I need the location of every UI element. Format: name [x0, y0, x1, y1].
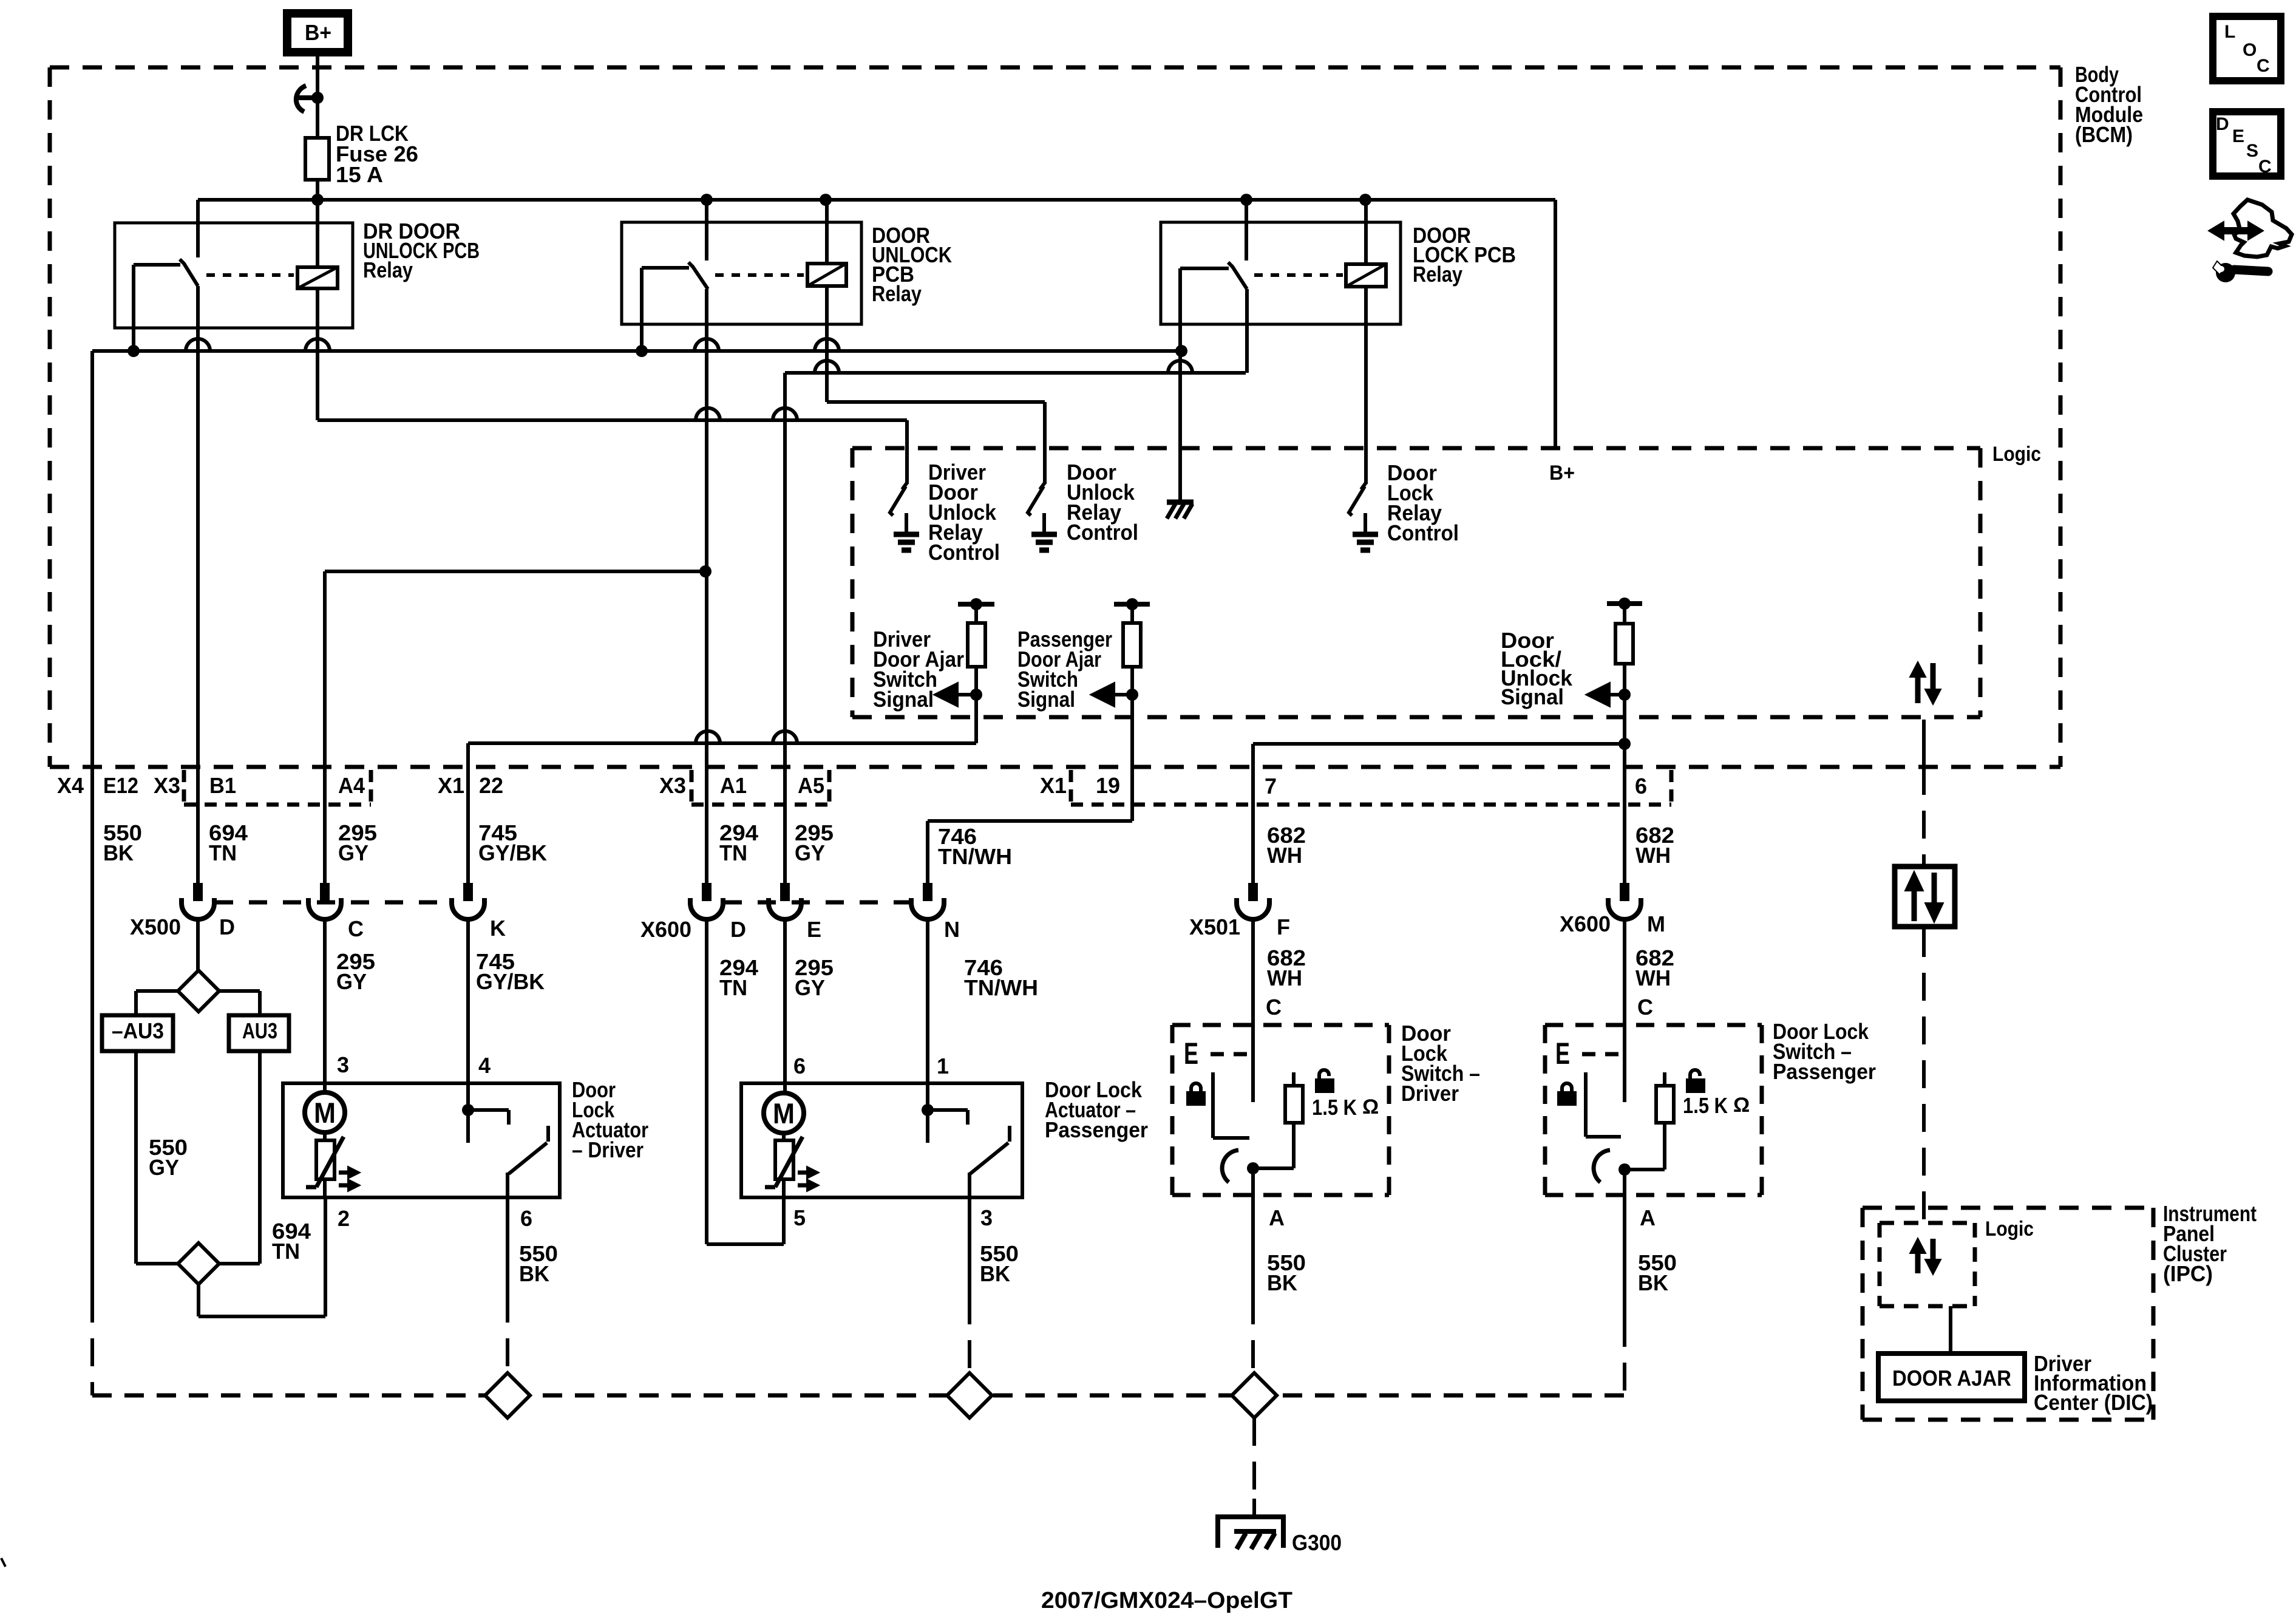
svg-text:Logic: Logic — [1992, 443, 2041, 466]
label X1 a — [438, 773, 464, 798]
svg-text:Signal: Signal — [1501, 684, 1564, 709]
relay K2 coil — [807, 264, 846, 286]
chassis ground relay K3 common — [1167, 502, 1194, 519]
svg-text:TN/WH: TN/WH — [938, 844, 1012, 869]
label 682 WH below F — [1267, 945, 1306, 990]
label X501 F — [1277, 914, 1290, 939]
label pin5 pass — [793, 1205, 806, 1230]
svg-text:1: 1 — [937, 1054, 949, 1078]
wire fuse to bus — [316, 180, 319, 269]
motor M passenger — [764, 1093, 804, 1133]
footer 2007/GMX024-OpelGT — [1041, 1588, 1292, 1613]
arrow door lock unlock signal — [1586, 683, 1631, 707]
svg-text:X1: X1 — [438, 773, 464, 798]
wire K1 coil control — [318, 288, 907, 484]
motor M driver — [305, 1092, 345, 1132]
door lock switch passenger lock contact — [1586, 1072, 1621, 1137]
svg-text:O: O — [2243, 40, 2257, 60]
svg-text:6: 6 — [1635, 774, 1647, 798]
resistor driver switch 1.5k — [1258, 1072, 1303, 1168]
relay K1 coil top wire — [316, 200, 319, 267]
svg-text:Control: Control — [928, 540, 1000, 565]
relay K2 common wire — [642, 268, 689, 351]
svg-text:WH: WH — [1635, 965, 1671, 990]
relay K3 switch blade — [1228, 262, 1247, 289]
label X3 a — [154, 773, 180, 798]
power symbol B+ — [287, 13, 348, 52]
door-wrench icon wrench — [2213, 261, 2268, 282]
svg-text:Passenger: Passenger — [1773, 1059, 1876, 1084]
label X500 K — [490, 916, 506, 941]
svg-text:F: F — [1277, 914, 1290, 939]
svg-text:E: E — [2232, 126, 2244, 146]
splice diamond driver actuator — [485, 1373, 530, 1418]
relay K3 common wire — [1180, 268, 1229, 502]
relay K1 DR DOOR UNLOCK PCB box — [115, 223, 353, 328]
label B1 — [209, 773, 236, 798]
svg-text:TN: TN — [272, 1239, 300, 1264]
svg-text:X4: X4 — [57, 773, 84, 798]
svg-text:Ω: Ω — [1362, 1095, 1379, 1119]
option box -AU3 — [102, 1015, 173, 1051]
label pin1 pass — [937, 1054, 949, 1078]
svg-text:X3: X3 — [154, 773, 180, 798]
svg-text:GY: GY — [795, 840, 825, 865]
label 550 GY — [149, 1135, 188, 1180]
dashes E passenger — [1582, 1052, 1621, 1057]
padlock closed driver — [1187, 1083, 1205, 1105]
junction dot clip — [311, 92, 324, 104]
instrument panel cluster dashed box — [1863, 1208, 2153, 1420]
svg-text:E: E — [807, 917, 821, 942]
door lock switch driver blade — [1222, 1150, 1238, 1182]
svg-text:3: 3 — [980, 1205, 993, 1230]
junction dots top bus — [311, 194, 1371, 206]
label 682 WH 6 — [1635, 823, 1674, 868]
label 694 TN B1 — [209, 820, 248, 865]
svg-text:X3: X3 — [659, 773, 686, 798]
door-wrench icon arrow — [2209, 222, 2263, 240]
splice diamond top — [178, 970, 219, 1012]
wire splice to AU3 — [219, 991, 260, 1015]
hops on K1 coil control wire — [696, 408, 797, 420]
label X4 — [57, 773, 84, 798]
door lock relay control switch — [1349, 483, 1378, 550]
wire B+ to fuse — [316, 56, 319, 138]
wire splice to pin2 — [199, 1197, 325, 1316]
relay K2 DOOR UNLOCK PCB box — [622, 222, 861, 324]
relay K3 DOOR LOCK PCB box — [1161, 222, 1401, 324]
label 550 BK driver actuator — [519, 1241, 558, 1286]
svg-text:7: 7 — [1265, 774, 1277, 798]
relay K3 switch bottom wire — [1245, 289, 1249, 373]
svg-text:C: C — [2258, 157, 2272, 177]
wire passenger switch to A — [1623, 1170, 1626, 1395]
svg-text:– Driver: – Driver — [572, 1137, 644, 1162]
svg-text:A5: A5 — [798, 773, 824, 798]
svg-text:3: 3 — [337, 1052, 349, 1077]
wire 550 BK E12 — [90, 351, 94, 1395]
padlock open passenger — [1686, 1070, 1705, 1092]
junction dot unlock bus — [699, 565, 712, 577]
junction dot driver switch — [1247, 1162, 1259, 1174]
label pin6 pass — [793, 1054, 806, 1078]
svg-text:L: L — [2224, 22, 2235, 42]
svg-text:AU3: AU3 — [242, 1018, 277, 1043]
svg-text:TN: TN — [719, 840, 747, 865]
svg-text:E: E — [1555, 1037, 1570, 1071]
label fuse — [336, 121, 418, 187]
svg-text:15 A: 15 A — [336, 162, 383, 187]
svg-text:TN/WH: TN/WH — [964, 975, 1038, 1000]
label pin3 pass — [980, 1205, 993, 1230]
label X500 — [130, 914, 181, 939]
svg-text:2: 2 — [338, 1206, 350, 1231]
wire BCM logic to IPC dashed — [1922, 720, 1926, 1222]
svg-text:WH: WH — [1267, 843, 1302, 868]
label X600 E — [807, 917, 821, 942]
resistor door lock unlock signal — [1607, 598, 1642, 744]
label 745 GYBK below K — [476, 949, 545, 994]
svg-text:Control: Control — [1387, 520, 1459, 545]
junction dots ground bus — [127, 345, 1187, 357]
connector X500 K — [452, 883, 484, 919]
wire K to actuator switch — [462, 917, 474, 1143]
door lock actuator passenger box — [741, 1083, 1022, 1197]
wire 550 BK passenger actuator — [968, 1197, 971, 1374]
svg-text:X600: X600 — [1560, 911, 1611, 936]
label Driver Door Ajar Switch Signal — [873, 627, 964, 712]
label 294 TN A1 — [719, 820, 758, 865]
svg-text:Relay: Relay — [1413, 262, 1462, 287]
svg-text:5: 5 — [793, 1205, 806, 1230]
door lock switch passenger blade — [1594, 1150, 1610, 1182]
ptc resistor passenger — [765, 1132, 803, 1187]
svg-text:D: D — [219, 914, 235, 939]
svg-text:D: D — [2216, 114, 2229, 134]
clip symbol at fuse — [296, 86, 315, 112]
label 22 — [479, 773, 503, 798]
relay K2 switch top terminal — [705, 200, 708, 260]
label 295 GY below E — [795, 955, 834, 1000]
svg-text:BK: BK — [1638, 1270, 1668, 1295]
logic dashed box BCM — [852, 448, 1980, 717]
relay K3 coil — [1346, 264, 1386, 287]
door-wrench icon outline — [2233, 200, 2292, 257]
connector X600 N — [911, 883, 944, 919]
resistor passenger door ajar — [1114, 598, 1150, 821]
wire K3 coil control — [1364, 287, 1368, 484]
svg-text:WH: WH — [1635, 843, 1671, 868]
wire to G300 — [1252, 1418, 1256, 1516]
arrow driver door ajar signal — [934, 683, 982, 707]
splice diamond bottom — [178, 1243, 219, 1284]
svg-text:GY: GY — [338, 840, 369, 865]
label 550 BK E12 — [103, 820, 142, 865]
label Logic IPC — [1985, 1217, 2034, 1241]
door unlock relay control switch — [1028, 483, 1057, 550]
label Driver Door Unlock Relay Control — [928, 460, 1000, 565]
wire N to actuator switch — [922, 917, 934, 1143]
lock-unlock arrows box — [1895, 867, 1955, 927]
fuse F26 DR LCK 15A — [305, 138, 329, 180]
label 1.5 K ohm driver — [1312, 1095, 1379, 1120]
relay K3 switch top terminal — [1245, 200, 1248, 260]
svg-text:X1: X1 — [1040, 773, 1067, 798]
driver door unlock relay control switch — [890, 483, 919, 550]
ipc logic dashed box — [1880, 1223, 1975, 1306]
label A passenger switch — [1640, 1205, 1656, 1230]
label relay K3 — [1413, 223, 1516, 287]
svg-text:4: 4 — [478, 1053, 491, 1078]
relay K1 actuation dashed — [206, 273, 294, 277]
svg-text:BK: BK — [1267, 1270, 1297, 1295]
wire ptc to pin2 — [323, 1179, 327, 1197]
svg-text:–AU3: –AU3 — [112, 1018, 164, 1043]
svg-text:S: S — [2246, 141, 2258, 161]
svg-text:GY/BK: GY/BK — [478, 840, 547, 865]
svg-text:BK: BK — [980, 1261, 1010, 1286]
svg-text:D: D — [730, 917, 746, 942]
arrow passenger door ajar signal — [1090, 683, 1138, 707]
label E driver — [1184, 1037, 1198, 1071]
label X500 C — [348, 916, 364, 941]
label G300 — [1292, 1530, 1342, 1555]
svg-text:A4: A4 — [338, 773, 365, 798]
label relay K1 — [363, 219, 480, 282]
wire 745 GYBK 22 — [466, 743, 470, 883]
svg-text:A: A — [1640, 1205, 1656, 1230]
svg-text:C: C — [1266, 995, 1282, 1020]
label 550 BK passenger switch — [1638, 1250, 1677, 1295]
svg-text:G300: G300 — [1292, 1530, 1342, 1555]
svg-text:M: M — [1647, 911, 1665, 936]
label 19 — [1096, 773, 1120, 798]
label Driver Information Center DIC — [2034, 1351, 2153, 1415]
wire -AU3 down — [136, 1051, 178, 1264]
relay K1 switch blade — [180, 259, 198, 286]
svg-text:B+: B+ — [1549, 461, 1575, 485]
label A1 — [720, 773, 747, 798]
label A4 — [338, 773, 365, 798]
connector X500 C — [308, 883, 341, 919]
label pin4 driver — [478, 1053, 491, 1078]
door lock switch passenger dashed box — [1545, 1025, 1762, 1195]
svg-text:Relay: Relay — [363, 257, 413, 282]
wire 746 TNWH 19 — [928, 821, 1132, 883]
svg-text:E12: E12 — [103, 773, 138, 798]
svg-text:(IPC): (IPC) — [2163, 1261, 2213, 1286]
door lock actuator driver box — [283, 1083, 560, 1197]
lock-unlock arrows IPC — [1910, 1238, 1941, 1275]
door lock switch driver lock contact — [1213, 1072, 1249, 1138]
svg-text:Relay: Relay — [872, 281, 922, 306]
svg-text:E: E — [1184, 1037, 1198, 1071]
wire A1 to pin5 — [707, 917, 784, 1244]
label 746 TNWH below N — [964, 955, 1038, 1000]
svg-text:X501: X501 — [1189, 914, 1240, 939]
LOC reference box — [2213, 16, 2281, 81]
svg-text:Passenger: Passenger — [1045, 1117, 1148, 1142]
wire bus lock A5 — [785, 371, 1246, 375]
svg-text:C: C — [2257, 56, 2270, 76]
svg-text:K: K — [490, 916, 506, 941]
svg-text:22: 22 — [479, 773, 503, 798]
wire 295 GY A4 — [323, 571, 327, 883]
relay K3 actuation dashed — [1254, 273, 1343, 277]
svg-text:WH: WH — [1267, 965, 1302, 990]
label Door Lock Actuator Driver — [572, 1077, 648, 1162]
wire logic to door ajar — [1949, 1306, 1952, 1355]
svg-text:19: 19 — [1096, 773, 1120, 798]
label Passenger Door Ajar Switch Signal — [1017, 627, 1112, 712]
ground G300 symbol — [1218, 1517, 1283, 1549]
wire E to motor — [783, 917, 787, 1094]
connector bracket X3 a — [184, 770, 371, 808]
actuator switch driver bottom — [506, 1173, 509, 1197]
DOOR AJAR indicator box — [1878, 1354, 2025, 1401]
actuator switch pass bottom — [968, 1173, 971, 1197]
wire B+ into logic — [1554, 200, 1557, 448]
connector X501 F — [1237, 883, 1269, 919]
label 745 GYBK 22 — [478, 820, 547, 865]
svg-text:B1: B1 — [209, 773, 236, 798]
svg-text:Driver: Driver — [1401, 1081, 1459, 1106]
label E passenger — [1555, 1037, 1570, 1071]
wire F to switch — [1251, 917, 1255, 1025]
label X3 b — [659, 773, 686, 798]
svg-text:GY: GY — [336, 969, 367, 994]
DESC reference box — [2213, 112, 2281, 177]
svg-text:6: 6 — [793, 1054, 806, 1078]
dashed link X600 connectors — [724, 901, 911, 905]
svg-text:N: N — [944, 917, 960, 942]
label 1.5 K ohm passenger — [1683, 1093, 1750, 1118]
ground bus dashed — [92, 1394, 1626, 1398]
label X501 — [1189, 914, 1240, 939]
label X600 — [640, 917, 691, 942]
label 295 GY A4 — [338, 820, 377, 865]
relay K2 switch blade — [688, 262, 708, 289]
label 550 BK passenger actuator — [980, 1241, 1019, 1286]
wire splice to -AU3 — [136, 991, 178, 1015]
wire K2 coil control — [827, 286, 1045, 484]
ptc arrows driver — [339, 1166, 360, 1191]
resistor passenger switch 1.5k — [1630, 1072, 1674, 1170]
wire bus ground 550BK — [92, 349, 1181, 353]
hops on lock bus — [815, 361, 1192, 373]
wire switch driver input — [1251, 1025, 1255, 1102]
wire 550 BK driver actuator — [506, 1197, 509, 1374]
svg-text:M: M — [314, 1097, 336, 1129]
svg-text:Center (DIC): Center (DIC) — [2034, 1390, 2153, 1415]
label Door Unlock Relay Control — [1067, 460, 1138, 545]
wire driver switch to A — [1251, 1168, 1255, 1374]
actuator switch pass fixed contact — [928, 1110, 968, 1125]
wire bus unlock to A4 — [325, 570, 705, 573]
splice diamond passenger actuator — [947, 1373, 992, 1418]
wire AU3 down — [219, 1051, 260, 1264]
wire M to switch — [1623, 917, 1626, 1025]
label Door Lock Actuator Passenger — [1045, 1077, 1148, 1142]
svg-text:1.5 K: 1.5 K — [1312, 1095, 1357, 1120]
svg-text:M: M — [773, 1097, 795, 1129]
relay K1 common wire — [134, 265, 180, 351]
lock-unlock arrows BCM logic — [1910, 662, 1941, 704]
label pin3 driver — [337, 1052, 349, 1077]
padlock open driver — [1316, 1070, 1334, 1092]
ptc resistor driver — [306, 1131, 344, 1187]
connector X600 D — [690, 883, 723, 919]
svg-text:B+: B+ — [305, 20, 331, 45]
svg-text:(BCM): (BCM) — [2075, 122, 2133, 147]
relay K1 coil — [297, 267, 338, 288]
svg-text:Control: Control — [1067, 520, 1138, 545]
wire 22 to resistor — [468, 741, 976, 745]
label 6 x1 — [1635, 774, 1647, 798]
BCM module dashed outline — [50, 67, 2060, 767]
svg-text:X500: X500 — [130, 914, 181, 939]
wire 294 TN A1 — [705, 289, 708, 883]
option box AU3 — [229, 1015, 289, 1051]
hops on wire 22 — [696, 731, 797, 743]
relay K2 actuation dashed — [715, 273, 804, 277]
splice diamond switch ground — [1232, 1373, 1277, 1418]
svg-text:A: A — [1269, 1205, 1285, 1230]
label 295 GY A5 — [795, 820, 834, 865]
label 295 GY below C — [336, 949, 375, 994]
label X600 D — [730, 917, 746, 942]
wire top feed bus — [198, 198, 1555, 202]
label 294 TN below D — [719, 955, 758, 1000]
svg-text:BK: BK — [519, 1261, 549, 1286]
label pin2 driver — [338, 1206, 350, 1231]
svg-text:X600: X600 — [640, 917, 691, 942]
label A5 — [798, 773, 824, 798]
svg-text:GY: GY — [795, 975, 825, 1000]
label E12 — [103, 773, 138, 798]
svg-text:C: C — [348, 916, 364, 941]
actuator switch pass blade — [970, 1126, 1010, 1174]
label Door Lock/ Unlock Signal — [1501, 628, 1573, 709]
label B+ logic — [1549, 461, 1575, 485]
ptc arrows passenger — [798, 1166, 819, 1191]
label relay K2 — [872, 223, 952, 306]
label 550 BK driver switch — [1267, 1250, 1306, 1295]
label 7 — [1265, 774, 1277, 798]
label Door Lock Relay Control — [1387, 460, 1459, 545]
svg-text:DOOR AJAR: DOOR AJAR — [1892, 1366, 2011, 1391]
label X600 N — [944, 917, 960, 942]
wire 694 TN B1 — [196, 286, 200, 883]
label C driver switch — [1266, 995, 1282, 1020]
label X600 M — [1647, 911, 1665, 936]
label 746 TNWH 19 — [938, 824, 1012, 869]
junction dot passenger switch — [1618, 1163, 1631, 1176]
padlock closed passenger — [1558, 1083, 1576, 1105]
resistor driver door ajar — [958, 598, 994, 743]
wire ptc to pin5 — [782, 1179, 786, 1244]
relay K1 switch top terminal — [196, 200, 200, 257]
wire 682 WH 6 — [1623, 744, 1626, 883]
wire 682 WH 7 — [1253, 738, 1631, 883]
connector X600 M — [1608, 883, 1641, 919]
svg-text:GY: GY — [149, 1155, 179, 1180]
connector X500 D — [182, 883, 214, 919]
relay K2 coil top wire — [825, 200, 829, 264]
dashed link X500 connectors — [215, 901, 451, 905]
label 682 WH 7 — [1267, 823, 1306, 868]
